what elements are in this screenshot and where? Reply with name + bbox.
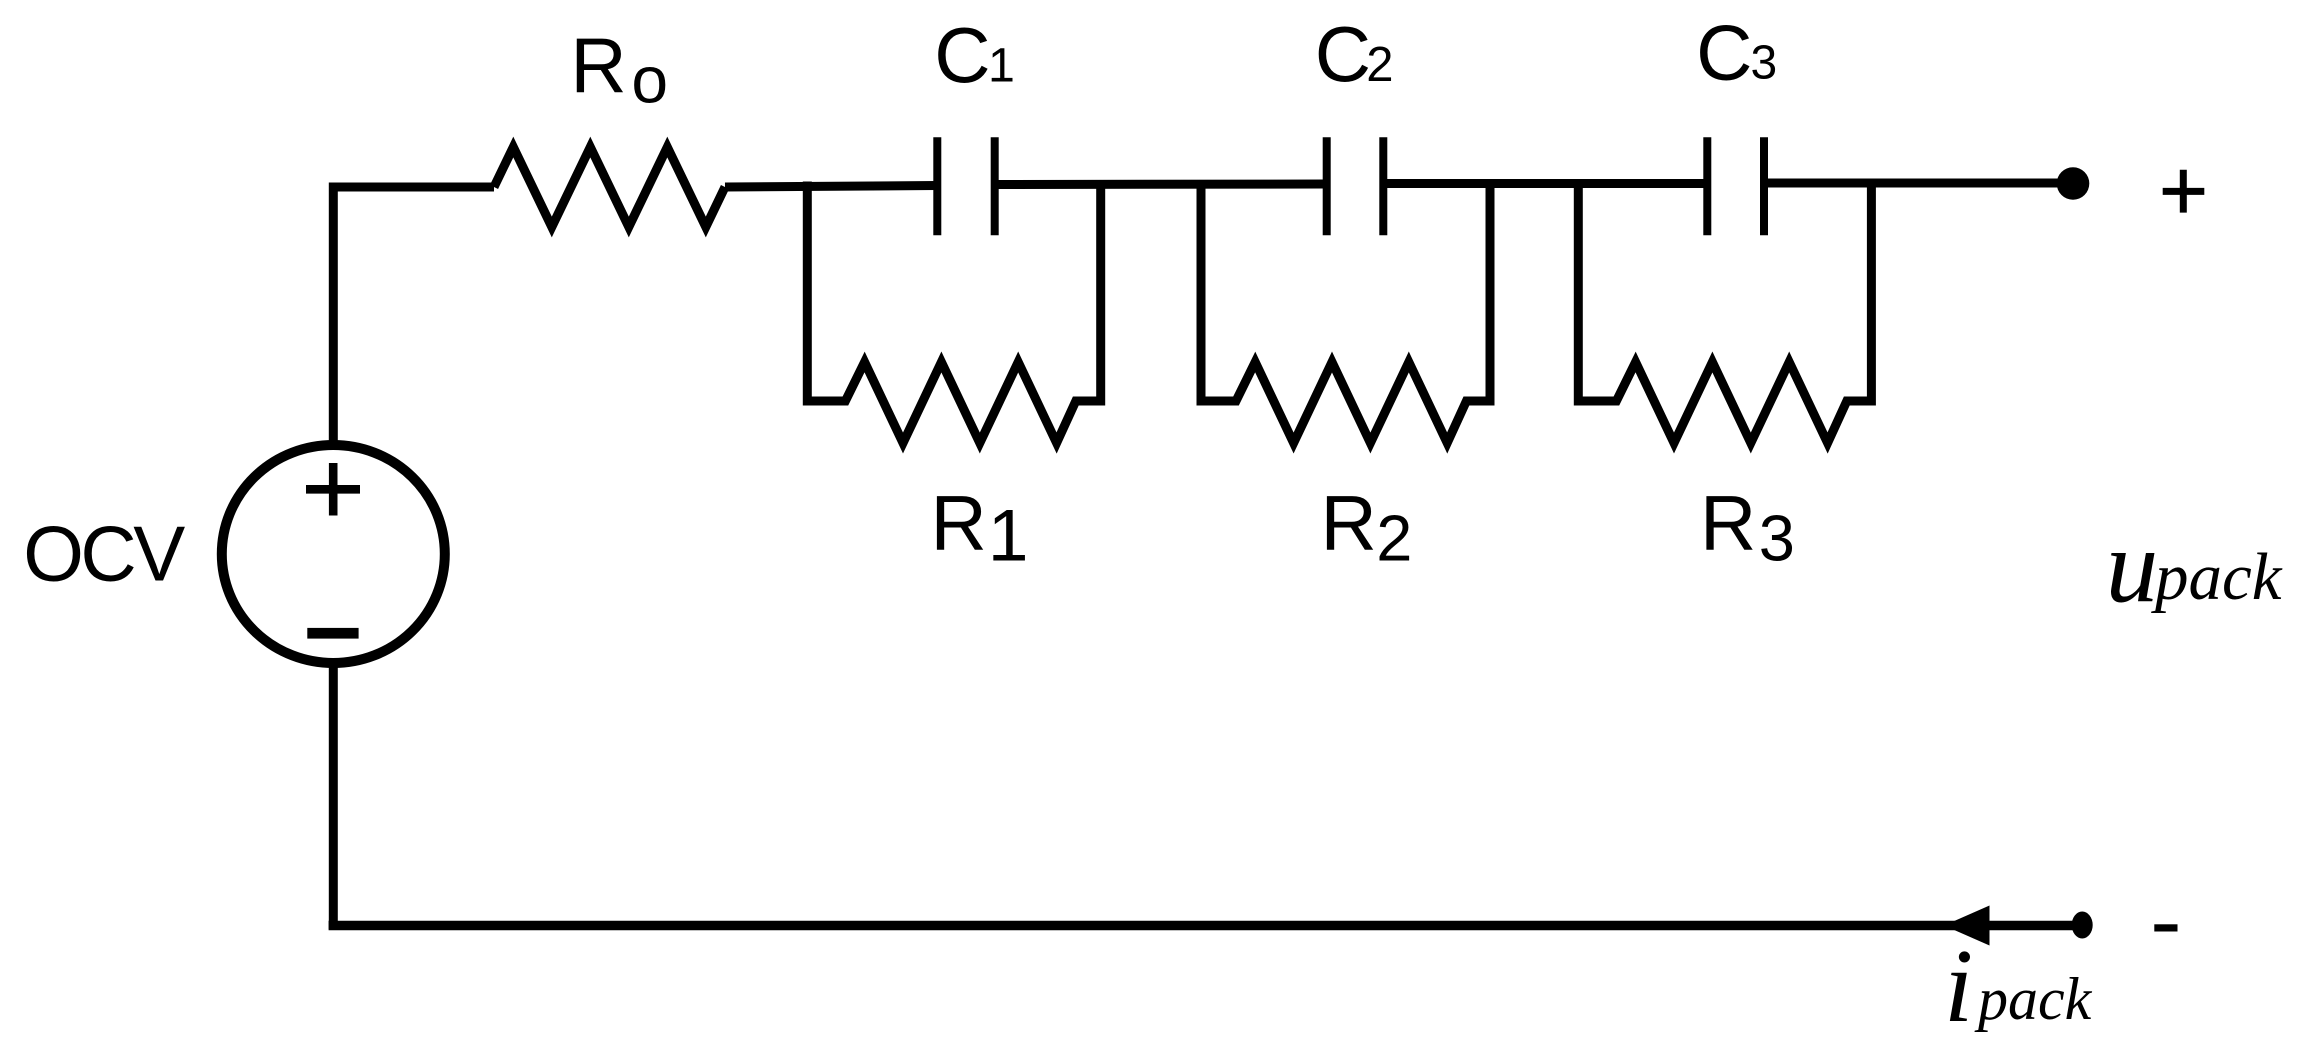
wire from OCV- down to bottom rail (329, 663, 338, 929)
svg-text:u: u (2106, 508, 2159, 625)
svg-text:2: 2 (1376, 502, 1412, 575)
svg-text:pack: pack (1974, 966, 2093, 1032)
wire from C3 to positive terminal (1764, 179, 2073, 188)
capacitor C2 (1327, 137, 1384, 235)
svg-text:3: 3 (1759, 502, 1795, 575)
label i_pack (1944, 927, 2093, 1044)
svg-text:pack: pack (2151, 540, 2283, 614)
svg-text:1: 1 (988, 38, 1015, 92)
resistor R3 with parallel branch wires (1578, 180, 1871, 443)
svg-text:i: i (1944, 927, 1973, 1044)
plus sign of terminal (2163, 170, 2205, 213)
svg-text:R: R (570, 22, 626, 110)
resistor R1 with parallel branch wires (807, 182, 1100, 444)
plus sign inside source (306, 463, 360, 516)
svg-text:1: 1 (988, 495, 1029, 577)
resistor R2 with parallel branch wires (1201, 181, 1490, 444)
voltage source OCV circle (222, 445, 445, 663)
wire from C2 to C3 (1383, 179, 1707, 188)
node positive terminal dot (2057, 167, 2090, 200)
svg-text:C: C (934, 11, 990, 99)
wire from C1 to C2 (995, 180, 1327, 190)
svg-text:R: R (931, 479, 987, 567)
wire top-left corner from OCV+ up and right to R0 (333, 187, 494, 446)
svg-text:3: 3 (1751, 36, 1778, 89)
svg-text:C: C (1315, 10, 1371, 98)
node negative terminal dot (2072, 912, 2093, 939)
svg-text:C: C (1696, 8, 1752, 96)
capacitor C3 (1707, 137, 1764, 235)
capacitor C1 (937, 137, 994, 235)
minus sign of terminal (2154, 924, 2177, 931)
svg-text:R: R (1321, 479, 1377, 567)
label R3 (1700, 479, 1795, 574)
svg-text:2: 2 (1366, 38, 1393, 92)
resistor R0 (494, 147, 725, 227)
wire from R0 to C1 (725, 186, 937, 188)
svg-text:R: R (1700, 479, 1756, 567)
label C2 (1315, 10, 1394, 98)
wire bottom rail (329, 921, 2082, 931)
minus sign inside source (307, 628, 358, 639)
svg-text:o: o (631, 42, 668, 116)
label C1 (934, 11, 1015, 99)
arrow head i_pack direction (1944, 906, 1990, 946)
svg-text:OCV: OCV (23, 510, 185, 598)
label R2 (1321, 479, 1413, 574)
label C3 (1696, 8, 1777, 96)
label u_pack (2106, 508, 2283, 625)
label R1 (931, 479, 1029, 576)
